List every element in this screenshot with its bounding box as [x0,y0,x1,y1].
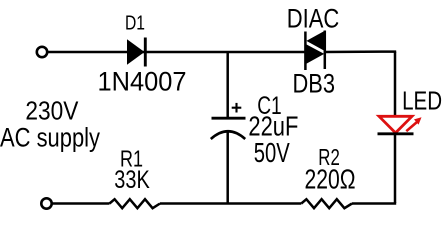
terminal bottom input [41,198,51,208]
polarity plus sign [232,103,242,113]
diac U1 [305,31,324,71]
svg-text:50V: 50V [254,137,290,168]
terminal top input [37,47,47,57]
wire bottom segment 2 [160,202,301,205]
wire right vertical [394,52,397,203]
svg-text:LED: LED [402,85,442,115]
capacitor C1 [211,118,246,139]
svg-text:AC supply: AC supply [0,122,100,152]
resistor R2 [301,199,352,208]
wire bottom segment 3 [352,202,396,205]
led D2 [378,116,422,134]
resistor R1 [110,199,161,208]
wire capacitor branch upper [226,52,229,118]
svg-text:DIAC: DIAC [287,4,340,34]
wire capacitor branch lower [226,131,229,204]
svg-text:D1: D1 [125,12,145,35]
wire top-left segment [48,51,307,54]
svg-text:1N4007: 1N4007 [98,67,187,97]
svg-text:230V: 230V [25,98,79,126]
diode D1 [127,38,145,67]
svg-text:33K: 33K [114,166,150,194]
svg-text:220Ω: 220Ω [305,164,356,195]
svg-text:DB3: DB3 [293,68,336,98]
wire bottom segment 1 [52,202,110,205]
wire top-right segment [324,50,396,53]
